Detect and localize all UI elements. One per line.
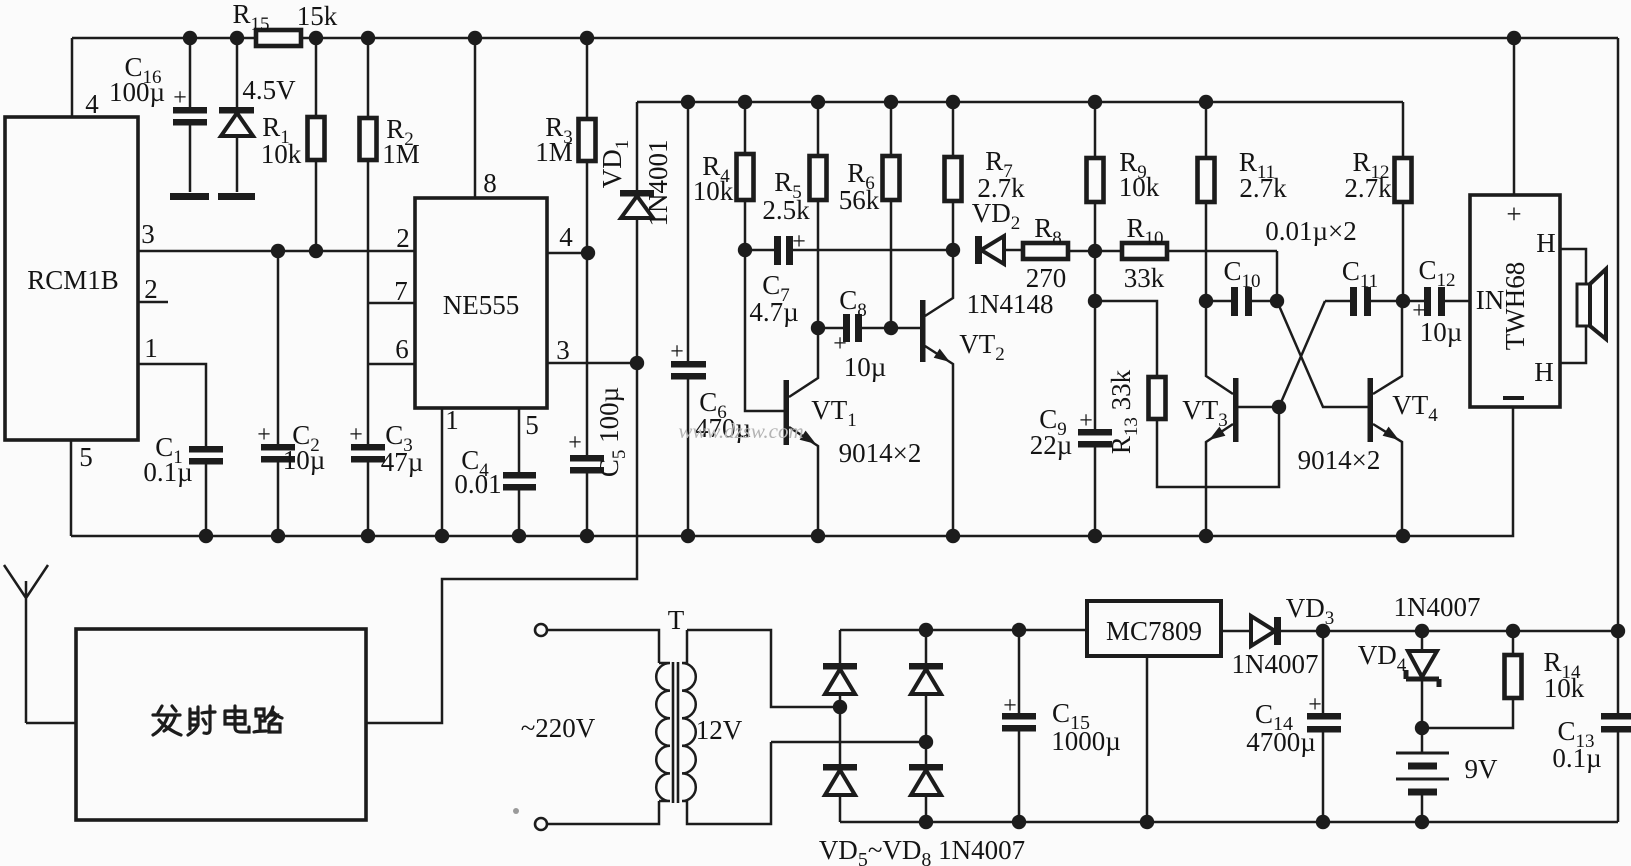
capacitor C15 xyxy=(1002,630,1121,822)
svg-text:15k: 15k xyxy=(297,1,338,31)
node junction C10-R11-VT3col xyxy=(1199,294,1213,308)
resistor R12 xyxy=(1344,102,1411,301)
AC terminal top xyxy=(535,624,547,636)
transistor VT3 9014 xyxy=(1182,301,1238,536)
node junction bridge left mid xyxy=(833,700,847,714)
capacitor C11 xyxy=(1325,256,1403,316)
antenna xyxy=(4,565,48,723)
wire second bus (VD1 output rail) xyxy=(637,101,1403,104)
svg-text:10µ: 10µ xyxy=(844,352,887,382)
node junction R8-R9-R10 xyxy=(1088,244,1102,258)
capacitor C5 xyxy=(568,387,630,536)
resistor R4 xyxy=(693,102,754,250)
NE555 pin 1 wire to ground xyxy=(441,408,444,536)
diode VD7 xyxy=(909,663,943,694)
svg-text:5: 5 xyxy=(525,410,539,440)
node junction R6-C8-VT2base xyxy=(884,321,898,335)
resistor R5 xyxy=(762,102,826,328)
label transmitter chinese DIAN xyxy=(225,706,249,732)
svg-text:1000µ: 1000µ xyxy=(1051,726,1121,756)
svg-text:1: 1 xyxy=(445,405,459,435)
diode VD4 zener xyxy=(1358,631,1439,728)
wire cross coupling C11 to VT3 base xyxy=(1239,301,1326,407)
svg-text:1N4001: 1N4001 xyxy=(643,140,673,227)
svg-text:www.dzsw.com: www.dzsw.com xyxy=(678,419,803,443)
transistor VT2 9014 xyxy=(920,250,1005,536)
svg-text:1: 1 xyxy=(144,333,158,363)
svg-text:4: 4 xyxy=(559,222,573,252)
svg-text:+: + xyxy=(1003,693,1017,719)
svg-text:10k: 10k xyxy=(1119,172,1160,202)
node junction R11 top xyxy=(1199,95,1213,109)
wire power ground rail xyxy=(840,821,1618,824)
transformer T secondary xyxy=(682,630,771,824)
wire bottom ground bus xyxy=(71,407,1513,536)
capacitor C4 xyxy=(454,445,536,499)
resistor R6 xyxy=(839,102,900,328)
NE555 pin 8 wire xyxy=(474,38,477,198)
wire secondary bottom to bridge xyxy=(771,741,926,744)
svg-text:2: 2 xyxy=(144,274,158,304)
wire pin3 node down to transmitter xyxy=(367,363,637,723)
svg-text:33k: 33k xyxy=(1124,263,1165,293)
pin 2 stub wire xyxy=(138,301,168,304)
IC NE555 box xyxy=(415,198,547,408)
svg-text:RCM1B: RCM1B xyxy=(27,265,119,295)
svg-text:0.1µ: 0.1µ xyxy=(143,457,192,487)
phase mark speck xyxy=(513,808,519,814)
node junction C10-R10-cross xyxy=(1270,294,1284,308)
diode VD5 xyxy=(823,663,857,694)
ground bar under zener xyxy=(218,193,255,200)
wire RCM1B pin3 to NE555 pin2 xyxy=(138,250,416,253)
node junction R7 top xyxy=(946,95,960,109)
resistor R3 xyxy=(535,38,595,455)
node junction gnd pin1 xyxy=(435,529,449,543)
IC RCM1B box xyxy=(5,117,138,440)
svg-text:+: + xyxy=(349,422,363,448)
node junction C15 top xyxy=(1012,623,1026,637)
NE555 pin 5 wire xyxy=(518,408,521,536)
capacitor C10 xyxy=(1206,256,1277,316)
node junction pin4-R3 xyxy=(581,246,595,260)
transmitter circuit box xyxy=(76,629,366,820)
node junction bridge bottom xyxy=(919,815,933,829)
transistor VT1 9014 xyxy=(745,250,921,536)
svg-text:22µ: 22µ xyxy=(1030,430,1073,460)
transformer T primary xyxy=(547,630,659,824)
svg-text:0.01µ×2: 0.01µ×2 xyxy=(1265,216,1357,246)
svg-text:+: + xyxy=(1506,199,1521,229)
wire NE555 pin7 to R2 line xyxy=(368,302,416,305)
svg-text:4700µ: 4700µ xyxy=(1246,727,1316,757)
node junction NE555-pin8 xyxy=(468,31,482,45)
bridge rectifier right column wire xyxy=(925,630,928,822)
node junction gnd VT2 emitter xyxy=(946,529,960,543)
node junction R13-VT3base xyxy=(1272,400,1286,414)
svg-text:0.01: 0.01 xyxy=(454,469,501,499)
svg-text:1N4007: 1N4007 xyxy=(1232,649,1319,679)
svg-text:3: 3 xyxy=(556,335,570,365)
node junction VD4 top xyxy=(1415,624,1429,638)
svg-text:MC7809: MC7809 xyxy=(1106,616,1202,646)
speaker xyxy=(1577,269,1606,339)
wire rectified rail to MC7809 xyxy=(840,629,1086,632)
svg-text:+: + xyxy=(670,339,684,365)
label transmitter chinese LU xyxy=(254,707,282,732)
svg-text:~220V: ~220V xyxy=(521,713,596,743)
node junction R4-C7-VT1base xyxy=(738,243,752,257)
bridge rectifier left column wire xyxy=(839,630,842,822)
svg-text:10µ: 10µ xyxy=(283,445,326,475)
wire NE555 pin3 to VD1 node xyxy=(547,362,637,365)
node junction C13 top xyxy=(1611,624,1625,638)
TWH68 supply pin wire xyxy=(1513,38,1516,195)
node junction gnd C9 xyxy=(1088,529,1102,543)
capacitor C12 xyxy=(1403,255,1470,347)
wire cross coupling C10 to VT4 base xyxy=(1277,301,1368,407)
diode VD3 1N4007 xyxy=(1232,593,1335,679)
svg-text:4.5V: 4.5V xyxy=(242,75,296,105)
wire MC7809 out xyxy=(1221,630,1323,633)
node junction gnd VT1 emitter xyxy=(811,529,825,543)
wire RCM1B pin5 to ground bus xyxy=(70,440,73,536)
svg-text:+: + xyxy=(173,85,187,111)
IC TWH68 box xyxy=(1470,195,1560,407)
node junction VD-zener-top xyxy=(230,31,244,45)
node junction bridge top xyxy=(919,623,933,637)
IC MC7809 box xyxy=(1087,601,1221,656)
resistor R10 xyxy=(1095,213,1277,301)
node junction R1-top xyxy=(309,31,323,45)
svg-text:TWH68: TWH68 xyxy=(1500,262,1530,350)
svg-text:2.7k: 2.7k xyxy=(1344,173,1392,203)
node junction pin3-VD1 xyxy=(630,356,644,370)
resistor R15 xyxy=(256,30,301,46)
capacitor C1 xyxy=(143,432,223,487)
node junction R9 top xyxy=(1088,95,1102,109)
node junction TWH68-plus xyxy=(1507,31,1521,45)
node junction R5 top xyxy=(811,95,825,109)
wire 9V rail xyxy=(1323,630,1618,633)
AC terminal bottom xyxy=(535,818,547,830)
node junction MC7809 gnd xyxy=(1140,815,1154,829)
svg-text:T: T xyxy=(668,605,685,635)
svg-text:+: + xyxy=(257,422,271,448)
node junction gnd C1 xyxy=(199,529,213,543)
node junction C15 gnd xyxy=(1012,815,1026,829)
svg-text:6: 6 xyxy=(395,334,409,364)
node junction battery gnd xyxy=(1415,815,1429,829)
wire NE555 pin6 to R2 line xyxy=(368,363,416,366)
svg-text:1M: 1M xyxy=(535,137,573,167)
node junction gnd C2 xyxy=(271,529,285,543)
capacitor C7 xyxy=(745,229,953,327)
svg-text:8: 8 xyxy=(483,168,497,198)
svg-text:+: + xyxy=(792,229,806,255)
svg-text:1N4007: 1N4007 xyxy=(1394,592,1481,622)
node junction R6 top xyxy=(884,95,898,109)
node junction gnd VT3 emitter xyxy=(1199,529,1213,543)
svg-text:9V: 9V xyxy=(1465,754,1499,784)
node junction R1 bottom xyxy=(309,244,323,258)
wire NE555 pin4 xyxy=(547,252,588,255)
zener diode 4.5V xyxy=(219,38,296,192)
wire secondary top to bridge xyxy=(687,630,840,707)
node junction C14 gnd xyxy=(1316,815,1330,829)
transistor VT4 9014 xyxy=(1298,301,1439,536)
node junction R14 top xyxy=(1506,624,1520,638)
svg-text:0.1µ: 0.1µ xyxy=(1552,743,1601,773)
capacitor C14 xyxy=(1246,631,1341,822)
resistor R2 xyxy=(360,38,420,536)
svg-text:2.7k: 2.7k xyxy=(1239,173,1287,203)
svg-text:9014×2: 9014×2 xyxy=(839,438,922,468)
svg-text:9014×2: 9014×2 xyxy=(1298,445,1381,475)
capacitor C9 xyxy=(1030,404,1112,536)
diode VD1 1N4001 xyxy=(597,102,673,363)
svg-text:10µ: 10µ xyxy=(1420,317,1463,347)
svg-text:10k: 10k xyxy=(693,176,734,206)
capacitor C6 xyxy=(670,102,751,536)
svg-text:H: H xyxy=(1536,228,1556,258)
capacitor C2 xyxy=(257,251,325,536)
svg-text:4.7µ: 4.7µ xyxy=(749,297,798,327)
node junction C11-R12-VT4col xyxy=(1396,294,1410,308)
node junction gnd C3 xyxy=(361,529,375,543)
resistor R13 xyxy=(1095,301,1279,487)
node junction gnd C4 xyxy=(512,529,526,543)
svg-text:47µ: 47µ xyxy=(381,447,424,477)
node junction R5-C8-VT1col xyxy=(811,321,825,335)
svg-text:10k: 10k xyxy=(1544,673,1585,703)
svg-text:5: 5 xyxy=(79,442,93,472)
node junction C6 top xyxy=(681,95,695,109)
svg-text:+: + xyxy=(1079,408,1093,434)
wire antenna to transmitter xyxy=(26,722,76,725)
svg-text:1M: 1M xyxy=(382,139,420,169)
resistor R7 xyxy=(945,102,1026,250)
svg-text:H: H xyxy=(1534,357,1554,387)
node junction R9-R13 branch xyxy=(1088,294,1102,308)
svg-text:12V: 12V xyxy=(696,715,743,745)
svg-text:2: 2 xyxy=(396,223,410,253)
node junction VD4-battery-R14 xyxy=(1415,721,1429,735)
label transmitter chinese SHE xyxy=(188,706,215,735)
svg-text:7: 7 xyxy=(394,276,408,306)
svg-text:270: 270 xyxy=(1026,263,1067,293)
svg-text:2.5k: 2.5k xyxy=(762,195,810,225)
node junction R3-top xyxy=(580,31,594,45)
node junction VD3-C14 xyxy=(1316,624,1330,638)
node junction gnd C6 xyxy=(681,529,695,543)
ground bar under C16 xyxy=(170,193,209,200)
resistor R1 xyxy=(261,38,325,251)
svg-text:4: 4 xyxy=(85,89,99,119)
capacitor C13 xyxy=(1552,631,1631,822)
svg-text:NE555: NE555 xyxy=(443,290,520,320)
battery 9V xyxy=(1396,728,1498,822)
resistor R11 xyxy=(1198,102,1288,301)
wire top VCC bus xyxy=(72,38,1618,117)
node junction R7-VD2-VT2col xyxy=(946,243,960,257)
MC7809 ground pin wire xyxy=(1146,656,1149,822)
svg-text:100µ: 100µ xyxy=(109,77,165,107)
transformer core xyxy=(673,662,678,803)
wire RCM1B pin1 xyxy=(138,364,206,536)
diode VD6 xyxy=(823,764,857,795)
resistor R8 xyxy=(1023,213,1092,293)
capacitor C16 xyxy=(109,38,207,192)
node junction bridge right mid xyxy=(919,735,933,749)
node junction R2-top xyxy=(361,31,375,45)
resistor R14 xyxy=(1422,631,1585,728)
wire right edge from top bus to 9V rail xyxy=(1617,38,1620,631)
node junction C16-top xyxy=(183,31,197,45)
node junction gnd C5 xyxy=(580,529,594,543)
capacitor C8 xyxy=(818,285,920,382)
svg-text:1N4148: 1N4148 xyxy=(967,289,1054,319)
diode VD8 xyxy=(909,764,943,795)
svg-text:3: 3 xyxy=(141,219,155,249)
capacitor C3 xyxy=(349,420,423,477)
node junction C2 top xyxy=(271,244,285,258)
node junction R4 top xyxy=(738,95,752,109)
svg-text:56k: 56k xyxy=(839,185,880,215)
node junction gnd VT4 emitter xyxy=(1396,529,1410,543)
svg-text:+: + xyxy=(1308,692,1322,718)
resistor R9 xyxy=(1087,102,1160,429)
svg-text:+: + xyxy=(568,430,582,456)
diode VD2 1N4148 xyxy=(967,198,1054,319)
wire speaker loop xyxy=(1560,249,1586,363)
label minus pin xyxy=(1503,396,1524,400)
label transmitter chinese FA xyxy=(153,706,181,735)
svg-text:10k: 10k xyxy=(261,139,302,169)
